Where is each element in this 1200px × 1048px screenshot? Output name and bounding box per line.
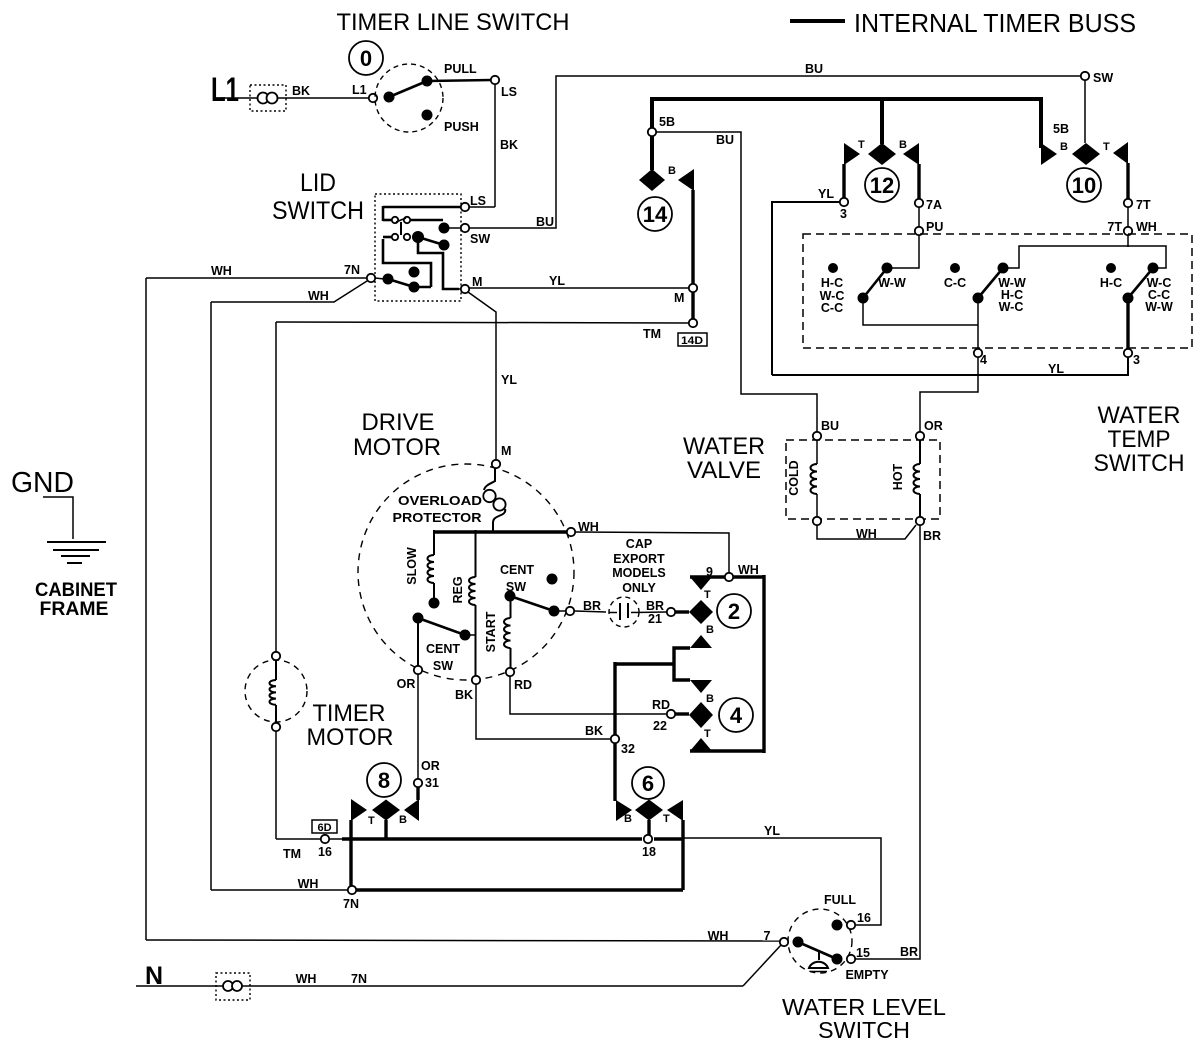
svg-text:FULL: FULL xyxy=(824,893,856,907)
svg-text:M: M xyxy=(674,291,684,305)
svg-text:SW: SW xyxy=(433,659,453,673)
svg-text:7T: 7T xyxy=(1107,220,1122,234)
svg-text:L1: L1 xyxy=(211,71,239,109)
svg-text:MODELS: MODELS xyxy=(612,566,665,580)
svg-text:BU: BU xyxy=(716,133,734,147)
svg-text:OR: OR xyxy=(397,677,416,691)
svg-text:SWITCH: SWITCH xyxy=(818,1017,910,1043)
svg-text:REG: REG xyxy=(451,576,465,603)
svg-text:WH: WH xyxy=(296,972,317,986)
svg-text:M: M xyxy=(501,444,511,458)
svg-text:7: 7 xyxy=(764,929,771,943)
svg-text:BU: BU xyxy=(805,62,823,76)
svg-text:EXPORT: EXPORT xyxy=(613,552,665,566)
svg-text:LS: LS xyxy=(501,85,517,99)
svg-text:WATER: WATER xyxy=(683,433,765,460)
svg-text:ONLY: ONLY xyxy=(622,581,656,595)
svg-text:OVERLOAD: OVERLOAD xyxy=(398,494,482,508)
svg-text:14D: 14D xyxy=(681,335,703,347)
svg-text:5B: 5B xyxy=(1053,122,1069,136)
svg-text:10: 10 xyxy=(1072,173,1096,198)
svg-text:BK: BK xyxy=(292,84,310,98)
svg-text:OR: OR xyxy=(421,759,440,773)
svg-text:PUSH: PUSH xyxy=(444,120,479,134)
svg-text:B: B xyxy=(899,139,907,151)
svg-text:DRIVE: DRIVE xyxy=(362,409,435,436)
svg-text:YL: YL xyxy=(764,824,780,838)
svg-text:7N: 7N xyxy=(351,972,367,986)
svg-text:SWITCH: SWITCH xyxy=(272,197,364,225)
svg-text:T: T xyxy=(704,728,711,740)
svg-text:L1: L1 xyxy=(352,83,367,97)
svg-text:16: 16 xyxy=(318,845,332,859)
svg-text:WH: WH xyxy=(738,563,759,577)
svg-text:WH: WH xyxy=(856,527,877,541)
svg-text:B: B xyxy=(399,814,407,826)
svg-text:BU: BU xyxy=(821,419,839,433)
svg-text:TM: TM xyxy=(283,847,301,861)
svg-text:VALVE: VALVE xyxy=(687,457,761,484)
svg-text:3: 3 xyxy=(840,207,847,221)
svg-text:SLOW: SLOW xyxy=(405,547,419,585)
svg-text:7N: 7N xyxy=(344,263,360,277)
svg-text:LS: LS xyxy=(470,194,486,208)
svg-text:WH: WH xyxy=(708,929,729,943)
svg-text:H-C: H-C xyxy=(1100,276,1122,290)
svg-text:BR: BR xyxy=(900,945,918,959)
svg-text:16: 16 xyxy=(857,911,871,925)
svg-text:LID: LID xyxy=(300,169,336,197)
svg-text:INTERNAL TIMER BUSS: INTERNAL TIMER BUSS xyxy=(854,10,1136,38)
svg-text:B: B xyxy=(706,624,714,636)
svg-text:TM: TM xyxy=(643,327,661,341)
svg-text:T: T xyxy=(1103,141,1110,153)
svg-text:CENT: CENT xyxy=(500,563,534,577)
svg-text:YL: YL xyxy=(818,187,834,201)
svg-text:TIMER LINE SWITCH: TIMER LINE SWITCH xyxy=(337,9,570,36)
svg-text:C-C: C-C xyxy=(944,276,966,290)
svg-text:EMPTY: EMPTY xyxy=(845,968,889,982)
svg-text:SWITCH: SWITCH xyxy=(1094,450,1185,477)
svg-text:BK: BK xyxy=(455,688,473,702)
svg-text:4: 4 xyxy=(980,353,987,367)
svg-text:RD: RD xyxy=(652,698,670,712)
svg-text:FRAME: FRAME xyxy=(40,598,109,620)
svg-text:SW: SW xyxy=(470,232,490,246)
svg-text:2: 2 xyxy=(728,599,740,624)
svg-text:B: B xyxy=(1060,141,1068,153)
svg-text:WH: WH xyxy=(211,264,232,278)
svg-text:RD: RD xyxy=(514,678,532,692)
svg-text:WATER: WATER xyxy=(1098,402,1181,429)
svg-text:9: 9 xyxy=(706,565,713,579)
svg-text:HOT: HOT xyxy=(891,463,905,490)
svg-text:C-C: C-C xyxy=(821,301,843,315)
svg-text:7A: 7A xyxy=(926,198,942,212)
svg-text:YL: YL xyxy=(501,373,517,387)
svg-text:TIMER: TIMER xyxy=(313,700,386,727)
svg-text:CENT: CENT xyxy=(426,642,460,656)
svg-text:6: 6 xyxy=(642,771,654,796)
svg-text:3: 3 xyxy=(1133,353,1140,367)
svg-text:BK: BK xyxy=(500,138,518,152)
svg-text:WH: WH xyxy=(1136,220,1157,234)
svg-text:0: 0 xyxy=(360,46,372,71)
svg-text:W-C: W-C xyxy=(999,300,1024,314)
svg-text:PROTECTOR: PROTECTOR xyxy=(393,511,482,525)
svg-text:M: M xyxy=(472,275,482,289)
svg-text:21: 21 xyxy=(648,612,662,626)
svg-text:WH: WH xyxy=(298,877,319,891)
svg-text:BU: BU xyxy=(536,215,554,229)
svg-text:PU: PU xyxy=(926,220,943,234)
svg-text:WH: WH xyxy=(308,289,329,303)
svg-text:B: B xyxy=(624,813,632,825)
svg-text:BR: BR xyxy=(646,599,664,613)
svg-text:6D: 6D xyxy=(317,822,331,834)
svg-text:H-C: H-C xyxy=(821,276,843,290)
svg-text:B: B xyxy=(706,693,714,705)
svg-text:MOTOR: MOTOR xyxy=(307,724,394,751)
svg-text:T: T xyxy=(704,589,711,601)
svg-text:8: 8 xyxy=(378,768,390,793)
svg-text:4: 4 xyxy=(730,703,743,728)
svg-text:32: 32 xyxy=(621,742,635,756)
svg-text:MOTOR: MOTOR xyxy=(353,434,441,461)
svg-text:15: 15 xyxy=(856,946,870,960)
svg-text:12: 12 xyxy=(870,173,894,198)
svg-text:BK: BK xyxy=(585,724,603,738)
svg-text:7N: 7N xyxy=(343,897,359,911)
svg-text:YL: YL xyxy=(549,274,565,288)
svg-text:SW: SW xyxy=(1093,71,1113,85)
svg-text:31: 31 xyxy=(425,776,439,790)
svg-text:CAP: CAP xyxy=(626,537,652,551)
svg-text:5B: 5B xyxy=(659,115,675,129)
svg-text:TEMP: TEMP xyxy=(1108,426,1171,453)
svg-text:14: 14 xyxy=(643,202,668,227)
svg-text:OR: OR xyxy=(924,419,943,433)
svg-text:22: 22 xyxy=(653,719,667,733)
svg-text:START: START xyxy=(484,611,498,652)
svg-text:18: 18 xyxy=(642,845,656,859)
svg-text:T: T xyxy=(368,815,375,827)
svg-text:W-W: W-W xyxy=(1145,300,1173,314)
svg-text:GND: GND xyxy=(11,467,74,499)
svg-text:YL: YL xyxy=(1048,362,1064,376)
svg-text:PULL: PULL xyxy=(444,62,477,76)
svg-text:W-W: W-W xyxy=(878,276,906,290)
svg-text:T: T xyxy=(663,813,670,825)
svg-text:COLD: COLD xyxy=(787,460,801,495)
svg-text:7T: 7T xyxy=(1136,198,1151,212)
svg-text:T: T xyxy=(858,139,865,151)
svg-text:B: B xyxy=(668,165,676,177)
svg-text:BR: BR xyxy=(923,529,941,543)
